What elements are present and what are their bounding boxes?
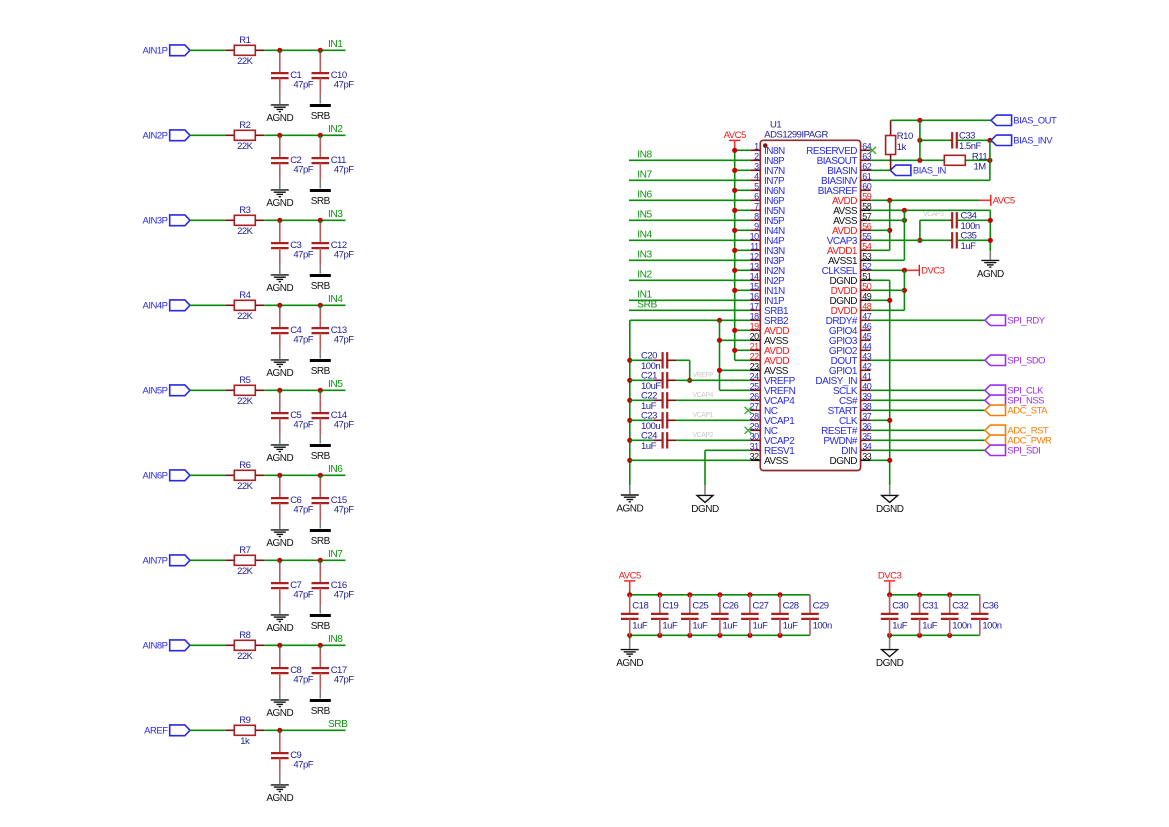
svg-text:32: 32	[750, 451, 760, 461]
svg-text:9: 9	[754, 221, 759, 231]
svg-text:58: 58	[862, 201, 872, 211]
svg-text:AGND: AGND	[616, 658, 643, 669]
svg-text:1uF: 1uF	[961, 241, 977, 252]
svg-text:IN5: IN5	[328, 379, 343, 390]
svg-text:5: 5	[754, 181, 759, 191]
svg-text:SPI_RDY: SPI_RDY	[1007, 316, 1045, 327]
svg-text:C24: C24	[641, 430, 657, 441]
svg-text:11: 11	[750, 241, 759, 251]
svg-text:IN6: IN6	[637, 190, 652, 201]
svg-text:1uF: 1uF	[922, 620, 938, 631]
svg-text:44: 44	[862, 341, 872, 351]
svg-text:C26: C26	[723, 600, 739, 611]
svg-text:21: 21	[750, 341, 760, 351]
svg-text:1uF: 1uF	[632, 620, 648, 631]
svg-text:IN8: IN8	[328, 634, 343, 645]
svg-text:R9: R9	[239, 715, 250, 726]
svg-text:1uF: 1uF	[753, 620, 769, 631]
svg-text:AGND: AGND	[266, 793, 293, 804]
svg-text:47pF: 47pF	[334, 165, 354, 176]
svg-text:AGND: AGND	[616, 503, 643, 514]
svg-text:1: 1	[754, 141, 759, 151]
svg-text:46: 46	[862, 321, 872, 331]
svg-text:4: 4	[754, 171, 759, 181]
svg-text:59: 59	[862, 191, 872, 201]
svg-text:47pF: 47pF	[293, 250, 313, 261]
svg-text:R1: R1	[239, 35, 250, 46]
svg-text:R2: R2	[239, 120, 250, 131]
svg-text:IN4: IN4	[328, 294, 343, 305]
svg-text:R3: R3	[239, 205, 250, 216]
svg-text:C32: C32	[952, 600, 968, 611]
svg-text:47pF: 47pF	[334, 505, 354, 516]
svg-text:22K: 22K	[237, 311, 254, 322]
svg-text:20: 20	[750, 331, 760, 341]
svg-text:17: 17	[750, 301, 760, 311]
svg-text:47pF: 47pF	[334, 335, 354, 346]
svg-text:C20: C20	[641, 350, 657, 361]
svg-text:IN6: IN6	[328, 464, 343, 475]
svg-text:AGND: AGND	[266, 453, 293, 464]
svg-text:C25: C25	[692, 600, 708, 611]
svg-text:SRB: SRB	[311, 621, 331, 632]
svg-text:13: 13	[750, 261, 760, 271]
svg-text:IN5: IN5	[637, 210, 652, 221]
svg-text:DVC3: DVC3	[878, 571, 902, 582]
svg-text:64: 64	[862, 141, 872, 151]
svg-text:SRB: SRB	[311, 281, 331, 292]
svg-text:42: 42	[862, 361, 872, 371]
svg-text:56: 56	[862, 221, 872, 231]
svg-text:47pF: 47pF	[293, 505, 313, 516]
svg-text:AVSS: AVSS	[764, 456, 789, 467]
svg-text:AGND: AGND	[266, 198, 293, 209]
svg-text:R8: R8	[239, 630, 250, 641]
svg-text:R6: R6	[239, 460, 250, 471]
svg-text:C27: C27	[753, 600, 769, 611]
svg-text:AGND: AGND	[266, 283, 293, 294]
svg-text:1uF: 1uF	[692, 620, 708, 631]
svg-text:48: 48	[862, 301, 872, 311]
svg-text:IN2: IN2	[637, 270, 652, 281]
svg-text:R10: R10	[897, 131, 913, 142]
svg-text:R5: R5	[239, 375, 250, 386]
svg-text:1uF: 1uF	[783, 620, 799, 631]
svg-text:C35: C35	[961, 230, 977, 241]
svg-text:DGND: DGND	[830, 456, 858, 467]
svg-text:C31: C31	[922, 600, 938, 611]
svg-text:39: 39	[862, 391, 872, 401]
svg-text:60: 60	[862, 181, 872, 191]
svg-text:1.5nF: 1.5nF	[959, 141, 981, 152]
svg-text:22K: 22K	[237, 396, 254, 407]
svg-text:AGND: AGND	[266, 368, 293, 379]
svg-text:SRB: SRB	[637, 300, 657, 311]
svg-text:47pF: 47pF	[334, 590, 354, 601]
svg-text:2: 2	[754, 151, 759, 161]
svg-text:61: 61	[862, 171, 872, 181]
svg-text:18: 18	[750, 311, 760, 321]
svg-text:C22: C22	[641, 390, 657, 401]
svg-text:100n: 100n	[952, 620, 971, 631]
svg-text:27: 27	[750, 401, 760, 411]
svg-text:31: 31	[750, 441, 760, 451]
svg-text:R4: R4	[239, 290, 250, 301]
svg-text:22: 22	[750, 351, 760, 361]
svg-text:IN7: IN7	[328, 549, 343, 560]
svg-text:C23: C23	[641, 410, 657, 421]
svg-text:AIN7P: AIN7P	[143, 556, 168, 567]
svg-text:SPI_SDI: SPI_SDI	[1007, 446, 1040, 457]
svg-text:100n: 100n	[813, 620, 832, 631]
svg-text:22K: 22K	[237, 226, 254, 237]
svg-text:43: 43	[862, 351, 872, 361]
svg-text:40: 40	[862, 381, 872, 391]
svg-text:51: 51	[862, 271, 872, 281]
svg-text:IN1: IN1	[328, 39, 343, 50]
svg-text:VCAP4: VCAP4	[693, 392, 714, 399]
svg-text:AIN6P: AIN6P	[143, 471, 168, 482]
svg-text:1uF: 1uF	[662, 620, 678, 631]
svg-text:SRB: SRB	[328, 719, 348, 730]
svg-text:AVC5: AVC5	[619, 571, 641, 582]
svg-text:DVC3: DVC3	[921, 266, 945, 277]
svg-text:41: 41	[862, 371, 872, 381]
svg-text:SRB: SRB	[311, 366, 331, 377]
svg-text:C19: C19	[662, 600, 678, 611]
svg-text:1k: 1k	[240, 736, 250, 747]
svg-text:25: 25	[750, 381, 760, 391]
svg-text:47pF: 47pF	[334, 420, 354, 431]
svg-text:45: 45	[862, 331, 872, 341]
svg-text:47pF: 47pF	[334, 250, 354, 261]
svg-text:IN8: IN8	[637, 150, 652, 161]
svg-text:6: 6	[754, 191, 759, 201]
svg-text:47pF: 47pF	[334, 80, 354, 91]
svg-text:37: 37	[862, 411, 872, 421]
svg-text:IN3: IN3	[328, 209, 343, 220]
svg-text:C28: C28	[783, 600, 799, 611]
svg-text:AVC5: AVC5	[993, 196, 1015, 207]
svg-text:C33: C33	[959, 130, 975, 141]
svg-text:52: 52	[862, 261, 872, 271]
svg-text:SRB: SRB	[311, 706, 331, 717]
svg-text:47pF: 47pF	[334, 675, 354, 686]
svg-text:47pF: 47pF	[293, 760, 313, 771]
svg-text:SRB: SRB	[311, 451, 331, 462]
svg-text:DGND: DGND	[876, 658, 904, 669]
svg-text:7: 7	[754, 201, 759, 211]
svg-text:SRB: SRB	[311, 111, 331, 122]
svg-text:AIN3P: AIN3P	[143, 216, 168, 227]
svg-text:15: 15	[750, 281, 760, 291]
svg-text:DGND: DGND	[691, 504, 719, 515]
svg-text:57: 57	[862, 211, 872, 221]
svg-text:BIAS_INV: BIAS_INV	[1013, 136, 1053, 147]
svg-text:62: 62	[862, 161, 872, 171]
svg-text:54: 54	[862, 241, 872, 251]
svg-text:SRB: SRB	[311, 536, 331, 547]
svg-text:AREF: AREF	[144, 726, 168, 737]
svg-text:22K: 22K	[237, 481, 254, 492]
svg-text:3: 3	[754, 161, 759, 171]
svg-text:16: 16	[750, 291, 760, 301]
svg-text:SRB: SRB	[311, 196, 331, 207]
svg-text:DGND: DGND	[876, 504, 904, 515]
svg-text:C30: C30	[892, 600, 908, 611]
svg-text:23: 23	[750, 361, 760, 371]
svg-text:47pF: 47pF	[293, 335, 313, 346]
svg-text:1uF: 1uF	[892, 620, 908, 631]
svg-text:AIN5P: AIN5P	[143, 386, 168, 397]
svg-text:1k: 1k	[897, 142, 907, 153]
svg-text:10: 10	[750, 231, 760, 241]
svg-text:AIN8P: AIN8P	[143, 641, 168, 652]
svg-text:VREFP: VREFP	[693, 372, 715, 379]
svg-text:IN4: IN4	[637, 230, 652, 241]
svg-text:C21: C21	[641, 370, 657, 381]
svg-text:47pF: 47pF	[293, 165, 313, 176]
svg-text:VCAP2: VCAP2	[693, 432, 714, 439]
svg-text:38: 38	[862, 401, 872, 411]
svg-text:IN7: IN7	[637, 170, 652, 181]
svg-text:1uF: 1uF	[641, 441, 657, 452]
svg-text:22K: 22K	[237, 566, 254, 577]
svg-text:BIAS_IN: BIAS_IN	[913, 166, 947, 177]
svg-text:C36: C36	[982, 600, 998, 611]
svg-text:34: 34	[862, 441, 872, 451]
svg-text:VCAP3: VCAP3	[923, 211, 944, 218]
svg-text:SPI_SDO: SPI_SDO	[1007, 356, 1045, 367]
svg-text:AGND: AGND	[266, 623, 293, 634]
svg-text:AVC5: AVC5	[724, 130, 746, 141]
svg-text:36: 36	[862, 421, 872, 431]
svg-text:26: 26	[750, 391, 760, 401]
svg-text:47pF: 47pF	[293, 590, 313, 601]
svg-text:47pF: 47pF	[293, 80, 313, 91]
svg-text:AGND: AGND	[266, 708, 293, 719]
svg-text:ADS1299IPAGR: ADS1299IPAGR	[764, 129, 828, 140]
svg-text:8: 8	[754, 211, 759, 221]
svg-text:50: 50	[862, 281, 872, 291]
svg-text:14: 14	[750, 271, 760, 281]
svg-text:22K: 22K	[237, 651, 254, 662]
svg-text:IN3: IN3	[637, 250, 652, 261]
svg-text:29: 29	[750, 421, 760, 431]
svg-text:47: 47	[862, 311, 872, 321]
svg-text:24: 24	[750, 371, 760, 381]
svg-text:AIN4P: AIN4P	[143, 301, 168, 312]
svg-text:BIAS_OUT: BIAS_OUT	[1013, 116, 1057, 127]
svg-text:33: 33	[862, 451, 872, 461]
svg-text:100n: 100n	[982, 620, 1001, 631]
svg-text:12: 12	[750, 251, 760, 261]
svg-text:19: 19	[750, 321, 760, 331]
svg-text:R7: R7	[239, 545, 250, 556]
svg-text:22K: 22K	[237, 141, 254, 152]
svg-text:AIN2P: AIN2P	[143, 131, 168, 142]
svg-text:IN2: IN2	[328, 124, 343, 135]
svg-text:AIN1P: AIN1P	[143, 46, 168, 57]
svg-text:55: 55	[862, 231, 872, 241]
svg-text:35: 35	[862, 431, 872, 441]
svg-text:22K: 22K	[237, 56, 254, 67]
svg-text:VCAP1: VCAP1	[693, 412, 714, 419]
svg-text:AGND: AGND	[266, 113, 293, 124]
svg-text:C29: C29	[813, 600, 829, 611]
svg-text:C34: C34	[961, 210, 977, 221]
svg-text:AGND: AGND	[977, 269, 1004, 280]
svg-text:C18: C18	[632, 600, 648, 611]
svg-text:49: 49	[862, 291, 872, 301]
svg-text:AGND: AGND	[266, 538, 293, 549]
svg-text:ADC_STA: ADC_STA	[1007, 406, 1048, 417]
svg-text:53: 53	[862, 251, 872, 261]
svg-text:1M: 1M	[974, 162, 987, 173]
svg-text:47pF: 47pF	[293, 675, 313, 686]
svg-text:47pF: 47pF	[293, 420, 313, 431]
svg-text:1uF: 1uF	[723, 620, 739, 631]
